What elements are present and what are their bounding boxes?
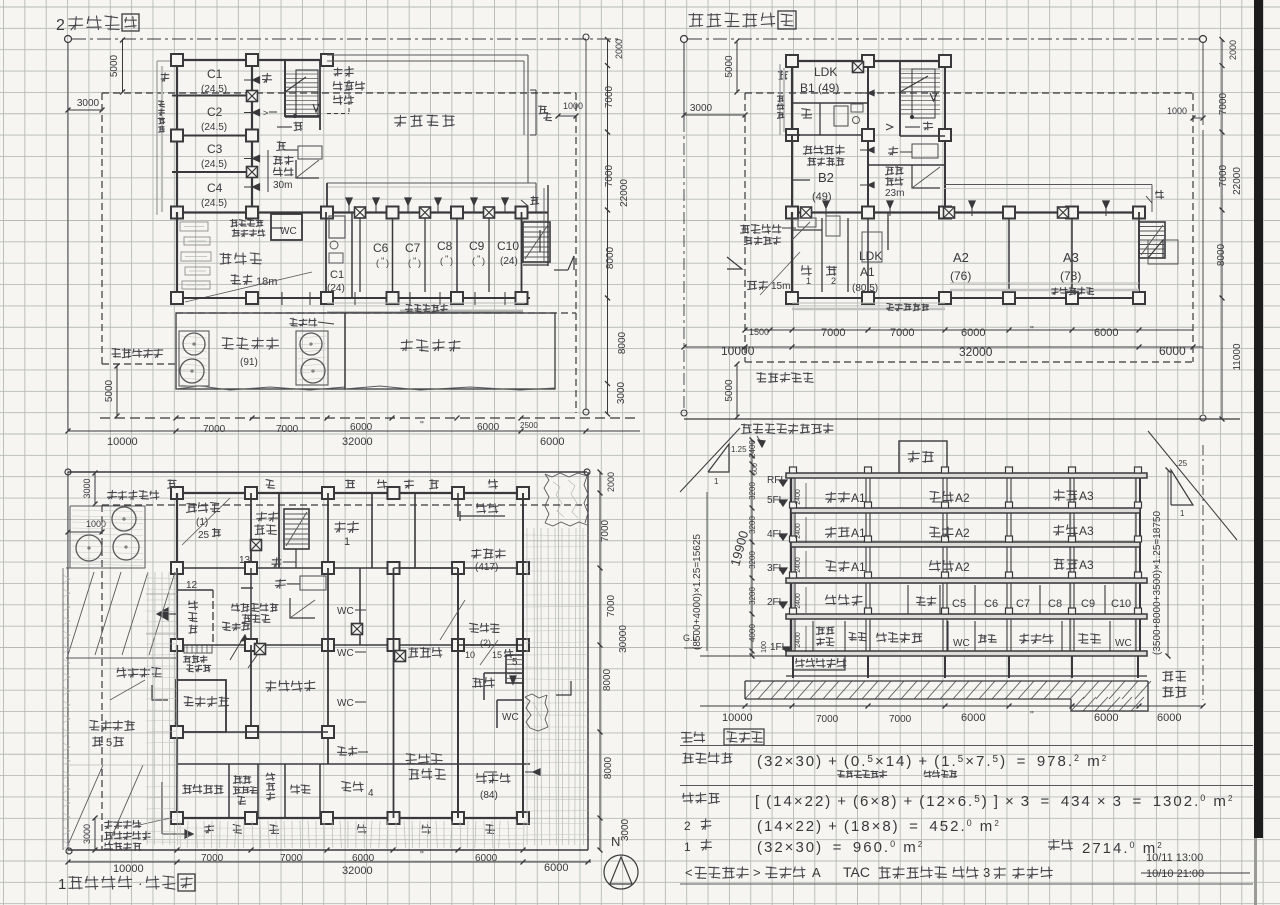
TR right stair bbox=[1139, 222, 1165, 258]
TL top datum dash-dot line bbox=[65, 36, 72, 43]
svg-text:>: > bbox=[753, 865, 761, 880]
svg-text:2: 2 bbox=[831, 276, 836, 286]
BL parking area diagonals upper bbox=[66, 567, 102, 569]
TR A1 unit interior bbox=[821, 218, 823, 292]
TR balcony A2A3 band bbox=[950, 282, 1139, 284]
BR slope triangle left bbox=[708, 444, 729, 472]
svg-text:A3: A3 bbox=[1079, 489, 1094, 503]
BL stair mid diag bbox=[290, 598, 315, 618]
TR bou label bbox=[778, 71, 787, 80]
TL bed rect upper bbox=[298, 146, 322, 159]
svg-text:A3: A3 bbox=[1079, 558, 1094, 572]
TR balcony left upper bbox=[779, 64, 781, 135]
svg-text:8000: 8000 bbox=[1216, 243, 1227, 266]
BL interior wall y=764 bbox=[177, 763, 530, 765]
TL right dim chain bbox=[607, 39, 609, 414]
svg-text:5: 5 bbox=[106, 737, 112, 749]
TR dim 3000 bbox=[683, 42, 685, 120]
TR upper wing floor line bbox=[792, 134, 868, 136]
TL hokou kyori 30m label bbox=[274, 156, 283, 164]
TL roof garden outline bbox=[176, 313, 345, 389]
svg-text:1500: 1500 bbox=[749, 327, 769, 337]
TL trees left box bbox=[183, 333, 205, 355]
svg-text:(32×30) = 960.0 m2: (32×30) = 960.0 m2 bbox=[757, 839, 924, 856]
TR enshou label bbox=[757, 373, 766, 382]
TL trees right box bbox=[300, 333, 322, 355]
scan edge dark band right bbox=[1254, 0, 1263, 838]
svg-text:C9: C9 bbox=[469, 239, 485, 253]
BL bou labels bottom bbox=[204, 825, 213, 833]
BR calc line kenchiku menseki bbox=[683, 753, 694, 763]
TL hisashi bracket bbox=[530, 89, 536, 91]
svg-text:13: 13 bbox=[239, 555, 251, 566]
svg-text:3000: 3000 bbox=[616, 381, 627, 404]
TL door triangles on corridor wall bbox=[253, 77, 260, 83]
TL right vertical ref line bbox=[583, 34, 589, 40]
svg-text:3200: 3200 bbox=[748, 551, 757, 569]
svg-text:C6: C6 bbox=[984, 598, 998, 610]
svg-text:2400: 2400 bbox=[748, 440, 757, 458]
svg-text:6000: 6000 bbox=[961, 712, 985, 724]
svg-text:<: < bbox=[685, 865, 693, 880]
BR tower bbox=[899, 441, 947, 473]
BL bottom wall y=818 bbox=[171, 817, 530, 819]
BL dim 3000 bottom left bbox=[94, 818, 96, 850]
svg-text:C7: C7 bbox=[405, 241, 421, 255]
BL cafe stair bbox=[506, 655, 523, 683]
svg-text:A1: A1 bbox=[851, 491, 866, 505]
TR mid columns row bbox=[786, 129, 798, 141]
title kijunkai heimenzu bbox=[689, 13, 703, 26]
TL okujou teien label bbox=[222, 338, 233, 349]
svg-text:'': '' bbox=[381, 256, 385, 266]
TR dim 5000 bbox=[736, 41, 738, 92]
BL bed rect mid bbox=[300, 576, 326, 590]
BL right shrub area bbox=[544, 474, 549, 523]
TL roof green top area outline bbox=[327, 54, 528, 56]
TL planting texture bbox=[181, 336, 207, 338]
TL mekakushi label bbox=[290, 318, 297, 326]
svg-text:C10: C10 bbox=[497, 239, 519, 253]
svg-text:2400: 2400 bbox=[795, 489, 802, 505]
svg-text:2000: 2000 bbox=[606, 472, 616, 492]
svg-text:'': '' bbox=[477, 254, 481, 264]
svg-text:A1: A1 bbox=[851, 526, 866, 540]
svg-text:8000: 8000 bbox=[605, 246, 616, 269]
TL bou label at balcony end bbox=[531, 196, 539, 204]
svg-text:B1 (49): B1 (49) bbox=[800, 81, 839, 95]
svg-text:(24.5): (24.5) bbox=[201, 198, 227, 209]
BL bicycle2 label bbox=[470, 623, 479, 632]
BL west wall lower bbox=[176, 645, 178, 818]
BL right pavement texture bbox=[526, 528, 528, 845]
svg-text:C1: C1 bbox=[330, 269, 344, 281]
BL east building wall bbox=[522, 493, 524, 818]
TR dim 5000 bottom bbox=[736, 364, 738, 417]
TL dim 5000 bottom-left bbox=[116, 366, 118, 416]
BR ruled lines bottom area bbox=[680, 745, 1253, 747]
svg-text:N: N bbox=[611, 834, 620, 849]
TL bou label right of C1 bbox=[262, 73, 271, 82]
BR section columns bbox=[790, 478, 792, 508]
BL building top wall 1F bbox=[171, 492, 530, 494]
TR door triangles row2 bbox=[823, 201, 829, 208]
svg-text:A3: A3 bbox=[1063, 250, 1079, 265]
svg-text:6000: 6000 bbox=[540, 436, 564, 448]
svg-text:100: 100 bbox=[761, 641, 768, 653]
svg-text:C6: C6 bbox=[373, 241, 389, 255]
svg-text:(24.5): (24.5) bbox=[201, 159, 227, 170]
BR jiban kairyou label bbox=[1163, 671, 1173, 681]
BR footings bbox=[792, 656, 794, 678]
TR lower stair bbox=[912, 165, 940, 188]
svg-text:2: 2 bbox=[56, 17, 65, 34]
TL left wing outer walls bbox=[171, 59, 332, 61]
svg-text:1.25: 1.25 bbox=[731, 445, 747, 454]
svg-text:2400: 2400 bbox=[795, 632, 802, 648]
TR balcony A1 south band bbox=[792, 302, 945, 304]
svg-text:(32×30) + (0.5×14) + (1.5×7.5): (32×30) + (0.5×14) + (1.5×7.5) = 978.2 m… bbox=[757, 753, 1108, 770]
svg-text:6000: 6000 bbox=[1159, 344, 1186, 358]
svg-text:7000: 7000 bbox=[276, 424, 299, 435]
TL bottom site line bbox=[100, 417, 640, 419]
svg-text:): ) bbox=[450, 256, 453, 266]
TR you1 you2 labels bbox=[802, 266, 812, 276]
svg-text:): ) bbox=[482, 256, 485, 266]
BL dashed enshou boundary bbox=[102, 504, 588, 506]
svg-text:A2: A2 bbox=[953, 250, 969, 265]
BR 2F labels bbox=[826, 595, 836, 605]
TL right wing east wall bbox=[521, 212, 523, 298]
TR lower wing roof edge line bbox=[944, 184, 1152, 186]
TL main long wall row2 y=212 with columns bbox=[171, 211, 548, 213]
svg-text:6000: 6000 bbox=[961, 327, 985, 339]
svg-text:18m: 18m bbox=[256, 276, 277, 288]
svg-text:3000: 3000 bbox=[620, 818, 631, 841]
svg-text:'': '' bbox=[445, 254, 449, 264]
BL classroom walls bbox=[327, 493, 329, 568]
TR door marks near stair bbox=[860, 92, 875, 94]
svg-text:A: A bbox=[812, 865, 821, 880]
svg-text:7000: 7000 bbox=[1218, 92, 1229, 115]
BL bottom pavement texture bbox=[179, 821, 181, 848]
svg-text:32000: 32000 bbox=[959, 345, 993, 359]
TR east wall bbox=[1138, 212, 1140, 298]
svg-text:10000: 10000 bbox=[107, 436, 138, 448]
svg-text:C2: C2 bbox=[207, 105, 223, 119]
svg-text:1: 1 bbox=[344, 536, 350, 548]
BR left dim chain bbox=[751, 440, 753, 656]
svg-text:22000: 22000 bbox=[1232, 167, 1243, 195]
svg-text:5000: 5000 bbox=[724, 55, 735, 78]
TR bed rect bbox=[912, 144, 938, 158]
BL parking diagonals lower bbox=[68, 765, 103, 845]
svg-text:2400: 2400 bbox=[795, 523, 802, 539]
svg-text:7000: 7000 bbox=[821, 327, 845, 339]
svg-text:WC: WC bbox=[337, 698, 354, 709]
svg-text:B2: B2 bbox=[818, 170, 834, 185]
svg-text:(14×22) + (18×8) = 452.0 m2: (14×22) + (18×8) = 452.0 m2 bbox=[757, 818, 1001, 835]
svg-text:WC: WC bbox=[1115, 638, 1132, 649]
BL stair 1F bbox=[284, 509, 309, 549]
TL lower stair diag bbox=[296, 160, 319, 178]
TL bottom dim chain2 bbox=[68, 430, 640, 432]
TL unit divider walls C1-C4 bbox=[172, 95, 252, 97]
TR door tri mid bbox=[868, 147, 874, 152]
TL south roof green area bbox=[345, 313, 555, 389]
BR level arrows bbox=[779, 480, 787, 486]
svg-text:15m: 15m bbox=[771, 281, 790, 292]
svg-text:C5: C5 bbox=[952, 598, 966, 610]
svg-text:7000: 7000 bbox=[1218, 164, 1229, 187]
svg-text:'': '' bbox=[413, 256, 417, 266]
svg-text:7000: 7000 bbox=[203, 424, 226, 435]
svg-text:(3500+8000+3500)×1.25=18750: (3500+8000+3500)×1.25=18750 bbox=[1152, 511, 1163, 655]
BL mail corner bbox=[184, 645, 212, 653]
svg-text:[ (14×22) + (6×8) + (12×6.5) ]: [ (14×22) + (6×8) + (12×6.5) ] × 3 = 434… bbox=[755, 793, 1234, 810]
TL choufuku 18m label + leader bbox=[231, 274, 241, 284]
BR slope triangle right bbox=[1171, 470, 1193, 505]
BL gakushuu juku label bbox=[472, 549, 481, 558]
svg-text:(: ( bbox=[472, 256, 475, 266]
BR 1F labels bbox=[816, 627, 824, 635]
BL mitooshi label bbox=[223, 622, 231, 630]
TL xboxes row2 bbox=[355, 207, 366, 218]
TR long wall row y=212 bbox=[786, 211, 1145, 213]
svg-text:1: 1 bbox=[806, 276, 811, 286]
TL kitchen corner label bbox=[230, 220, 237, 227]
BL entry path lines bbox=[146, 593, 177, 595]
BL gomi storage bbox=[250, 493, 252, 568]
svg-text:6000: 6000 bbox=[1094, 712, 1118, 724]
TR B2 unit walls bbox=[791, 135, 793, 212]
BL kitchen cafe walls bbox=[457, 568, 459, 818]
svg-text:2000: 2000 bbox=[1228, 40, 1238, 60]
svg-text:7000: 7000 bbox=[600, 519, 611, 542]
BL xbox near row bbox=[395, 651, 406, 662]
svg-text:2400: 2400 bbox=[795, 557, 802, 573]
svg-text:30000: 30000 bbox=[618, 625, 629, 653]
BL flow arrow bbox=[162, 833, 190, 835]
TL bou label left bbox=[161, 73, 169, 81]
BR saikou takasa note bbox=[742, 424, 752, 434]
svg-text:(24): (24) bbox=[500, 256, 518, 267]
svg-text:10/11 13:00: 10/11 13:00 bbox=[1146, 852, 1203, 864]
svg-text:(: ( bbox=[376, 258, 379, 268]
TL dim 3000 left bbox=[67, 42, 69, 431]
BR GL line left bbox=[700, 655, 792, 657]
svg-text:C8: C8 bbox=[437, 239, 453, 253]
svg-text:C4: C4 bbox=[207, 181, 223, 195]
svg-text:C7: C7 bbox=[1016, 598, 1030, 610]
svg-text:23m: 23m bbox=[885, 188, 904, 199]
svg-text:3000: 3000 bbox=[690, 103, 713, 114]
svg-text:5000: 5000 bbox=[104, 379, 115, 402]
BL kyoushitsu1 label bbox=[335, 522, 346, 532]
svg-text:15: 15 bbox=[492, 650, 502, 660]
svg-text:(2): (2) bbox=[480, 638, 491, 648]
svg-text:7000: 7000 bbox=[604, 164, 615, 187]
TR zaitaku label lower-left bbox=[741, 225, 750, 233]
svg-text:WC: WC bbox=[502, 712, 519, 723]
svg-text:3000: 3000 bbox=[82, 478, 92, 498]
BR unit labels 4F bbox=[826, 527, 837, 537]
BL planting area top-left trees bbox=[70, 506, 145, 568]
svg-text:1000: 1000 bbox=[563, 101, 583, 111]
TR kagi mark bbox=[727, 257, 742, 269]
svg-text:G.L.: G.L. bbox=[683, 633, 700, 643]
BL kurumaisu label bbox=[117, 667, 126, 677]
BL corner mark kanri bbox=[152, 685, 168, 700]
TR balcony label right bbox=[1052, 288, 1058, 295]
svg-text:3200: 3200 bbox=[748, 482, 757, 500]
BL columns y=732 bbox=[171, 726, 183, 738]
BL parking label bbox=[90, 721, 99, 730]
BL bichiku souko bbox=[250, 645, 252, 732]
BL entrance hall label bbox=[232, 604, 240, 612]
TR lower wing unit walls bbox=[791, 212, 793, 298]
svg-text:(: ( bbox=[408, 258, 411, 268]
BR 1F partition lines bbox=[812, 621, 814, 651]
svg-text:WC: WC bbox=[337, 648, 354, 659]
svg-text:TAC: TAC bbox=[843, 864, 870, 880]
svg-text:32000: 32000 bbox=[342, 865, 373, 877]
BL kyoushitsu4 label bbox=[342, 782, 351, 792]
TR zaitaku space B2 labels bbox=[803, 146, 812, 155]
svg-text:7000: 7000 bbox=[889, 714, 912, 725]
svg-text:1: 1 bbox=[1180, 509, 1185, 518]
TL kyouyoushitsu label bbox=[220, 253, 231, 264]
svg-text:11000: 11000 bbox=[1232, 343, 1243, 371]
BL east planting pocket bbox=[525, 697, 531, 728]
BL entrance area walls bbox=[176, 568, 178, 590]
BR unit labels 3F bbox=[826, 561, 836, 572]
svg-text:10000: 10000 bbox=[722, 712, 753, 724]
svg-text:C1: C1 bbox=[207, 67, 223, 81]
svg-text:8000: 8000 bbox=[603, 756, 614, 779]
svg-text:LDK: LDK bbox=[814, 65, 837, 79]
svg-text:C8: C8 bbox=[1048, 598, 1062, 610]
svg-text:(78): (78) bbox=[1060, 269, 1081, 283]
BL mid row columns y=568 bbox=[171, 567, 530, 569]
svg-text:·: · bbox=[138, 875, 143, 891]
svg-text:'': '' bbox=[1030, 710, 1034, 721]
svg-text:10000: 10000 bbox=[721, 344, 755, 358]
BL chuubou label bbox=[473, 678, 483, 687]
svg-text:>: > bbox=[263, 108, 268, 118]
TR bottom dims chain1 bbox=[745, 329, 1193, 331]
TL enshou line dashed boundary bbox=[102, 92, 576, 94]
svg-text:3000: 3000 bbox=[77, 98, 100, 109]
BR ground hatch bbox=[745, 681, 1151, 699]
svg-text:1: 1 bbox=[714, 477, 719, 486]
TR datum dash-dot bbox=[681, 36, 688, 43]
TL stair upper bbox=[284, 60, 286, 117]
BL right dim chain bbox=[599, 472, 601, 850]
svg-text:2400: 2400 bbox=[795, 593, 802, 609]
svg-text:1000: 1000 bbox=[86, 519, 106, 529]
svg-text:(: ( bbox=[440, 256, 443, 266]
svg-text:22000: 22000 bbox=[619, 179, 630, 207]
TL door triangles row on north balcony bbox=[346, 198, 352, 205]
svg-text:6000: 6000 bbox=[1094, 327, 1118, 339]
BR small note nishi balcony bbox=[838, 770, 845, 777]
BL enshou label top bbox=[108, 490, 117, 498]
svg-text:3200: 3200 bbox=[748, 516, 757, 534]
BR slope line left bbox=[680, 428, 740, 492]
TL small unit C1(24) walls bbox=[325, 212, 327, 298]
svg-text:32000: 32000 bbox=[342, 436, 373, 448]
BR floor slabs bbox=[786, 473, 1147, 478]
TR bottom base line bbox=[684, 418, 1240, 420]
TR hokou kyori 23m bbox=[886, 167, 894, 175]
TL tokusai door markers near stair bbox=[277, 126, 292, 128]
TR interior unit walls lower bbox=[867, 218, 869, 298]
BR slope line right bbox=[1148, 431, 1237, 540]
BL dim 3000 top-left bbox=[94, 473, 96, 504]
TR upper wing walls bbox=[786, 60, 950, 62]
BR title east-west section bbox=[682, 732, 693, 742]
svg-text:A1: A1 bbox=[851, 560, 866, 574]
TR stair block upper bbox=[899, 61, 901, 136]
svg-text:(76): (76) bbox=[950, 269, 971, 283]
BL cafe label bbox=[477, 773, 487, 783]
BL left planting strip texture bbox=[63, 575, 70, 583]
BR unit labels 5F bbox=[826, 492, 836, 502]
TL common room left walls bbox=[176, 212, 178, 298]
svg-text:10/10 21:00: 10/10 21:00 bbox=[1146, 868, 1204, 880]
svg-text:8000: 8000 bbox=[617, 331, 628, 354]
BL jusuisou pump denki rooms bbox=[228, 764, 230, 818]
svg-text:6000: 6000 bbox=[1157, 712, 1181, 724]
svg-text:): ) bbox=[418, 258, 421, 268]
svg-text:1: 1 bbox=[58, 876, 66, 893]
svg-text:3200: 3200 bbox=[748, 587, 757, 605]
TL dim 5000 top-left bbox=[122, 40, 124, 92]
svg-text:'': '' bbox=[420, 420, 424, 431]
BR right dash-dot vertical bbox=[1202, 445, 1204, 700]
TR enshou dashed boundary bbox=[745, 92, 1193, 94]
svg-text:7000: 7000 bbox=[816, 714, 839, 725]
BL north symbol bbox=[604, 855, 638, 889]
TR bottom columns row bbox=[786, 297, 1145, 299]
svg-text:A2: A2 bbox=[955, 560, 970, 574]
TL units C6-C10 walls bbox=[392, 218, 394, 292]
svg-text:WC: WC bbox=[337, 606, 354, 617]
svg-text:6000: 6000 bbox=[544, 862, 568, 874]
svg-text:WC: WC bbox=[280, 226, 297, 237]
BL door tri cafe bbox=[533, 769, 540, 775]
svg-text:30m: 30m bbox=[273, 180, 292, 191]
svg-text:7000: 7000 bbox=[606, 594, 617, 617]
BL jimu room label bbox=[409, 648, 418, 658]
svg-text:3000: 3000 bbox=[82, 824, 92, 844]
BL row y=645 columns bbox=[171, 644, 530, 646]
svg-text:.25: .25 bbox=[1176, 459, 1188, 468]
svg-text:): ) bbox=[386, 258, 389, 268]
svg-text:10000: 10000 bbox=[113, 863, 144, 875]
BL kanrinin room bbox=[176, 680, 226, 732]
svg-text:A2: A2 bbox=[955, 491, 970, 505]
TL bottom dim chain1 bbox=[174, 416, 179, 421]
svg-text:1: 1 bbox=[684, 840, 691, 854]
TR choufuku 15m bbox=[747, 281, 756, 289]
BL wc block bbox=[327, 568, 329, 645]
svg-text:2: 2 bbox=[684, 819, 691, 833]
svg-text:5000: 5000 bbox=[724, 379, 735, 402]
BL fuujoshitsu label bbox=[189, 601, 198, 610]
TR naka corridor walls bbox=[868, 164, 945, 166]
